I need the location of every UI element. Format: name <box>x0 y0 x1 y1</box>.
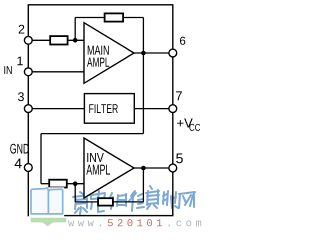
pin 5 terminal <box>169 164 177 172</box>
wire output node down <box>142 53 144 134</box>
node inv feedback tap <box>73 181 78 186</box>
resistor R input inv <box>49 180 67 188</box>
pin 1 terminal <box>24 68 32 76</box>
node main output <box>141 51 146 56</box>
pin 6 terminal <box>169 49 177 57</box>
wire to inv input resistor <box>41 183 49 185</box>
wire feedback drop to output node <box>142 18 144 54</box>
filter block <box>84 94 134 124</box>
pin label 5 <box>176 153 183 163</box>
net label IN <box>4 66 11 74</box>
watermark logo book icon <box>29 187 201 226</box>
net label +Vcc <box>177 119 193 128</box>
pin label 2 <box>19 25 25 34</box>
wire resistor to inv amp input <box>67 183 84 185</box>
label AMPL <box>86 165 110 175</box>
wire feedback top left <box>75 17 104 19</box>
wire pin 2 to input resistor <box>32 39 50 41</box>
wire resistor to main amp input <box>68 39 84 41</box>
pin 7 terminal <box>169 105 177 113</box>
wire filter to pin 7 <box>134 108 173 110</box>
IC package outline <box>28 5 173 216</box>
pin 4 terminal <box>24 164 32 172</box>
pin 3 terminal <box>24 105 32 113</box>
wire across under filter <box>41 133 143 135</box>
resistor R feedback main <box>105 13 124 21</box>
wire inv feedback bottom right <box>113 201 143 203</box>
label INV <box>87 153 103 162</box>
wire inv feedback down <box>74 184 76 202</box>
op-amp MAIN AMPL <box>84 23 134 84</box>
wire down left side to inv input <box>40 134 42 184</box>
label MAIN <box>88 46 109 55</box>
pin label 1 <box>17 57 22 66</box>
pin 2 terminal <box>24 36 32 44</box>
label FILTER <box>89 104 118 113</box>
wire pin 1 to main amp <box>32 71 84 73</box>
wire feedback riser <box>74 18 76 41</box>
label AMPL <box>87 58 109 67</box>
pin label 7 <box>176 91 182 100</box>
wire feedback top right <box>123 17 143 19</box>
wire inv feedback bottom left <box>75 201 98 203</box>
node main feedback tap <box>73 38 78 43</box>
pin label 4 <box>15 159 22 169</box>
watermark logo <box>73 186 195 214</box>
wire main amp output to pin 6 <box>134 52 173 54</box>
node inv output <box>141 166 146 171</box>
resistor R feedback inv <box>98 198 113 205</box>
wire pin 3 to filter <box>32 108 84 110</box>
pin label 3 <box>18 92 24 101</box>
wire inv feedback riser <box>142 168 144 202</box>
pin label 6 <box>180 37 185 45</box>
net label GND <box>10 144 29 154</box>
op-amp INV AMPL <box>84 138 134 198</box>
wire inv output to pin 5 <box>134 167 173 169</box>
resistor R input main <box>50 36 67 44</box>
